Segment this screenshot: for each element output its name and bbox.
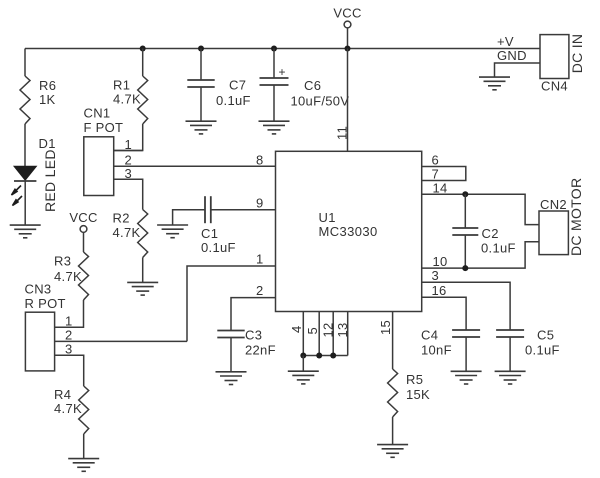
svg-text:R5: R5 — [406, 372, 423, 387]
wire C2 to pin10 net — [464, 235, 466, 268]
wire CN4 GND — [495, 63, 541, 77]
resistor R6 — [20, 76, 30, 124]
svg-text:6: 6 — [432, 153, 440, 168]
wire U1 pin15 to R5 — [392, 312, 394, 370]
svg-text:0.1uF: 0.1uF — [525, 343, 560, 358]
svg-text:VCC: VCC — [333, 6, 361, 21]
power VCC (top) — [333, 6, 361, 49]
svg-text:CN4: CN4 — [541, 79, 568, 94]
wire D1 to ground — [24, 181, 26, 225]
ground (CN4) — [479, 77, 510, 90]
svg-text:CN3: CN3 — [25, 282, 52, 297]
connector CN4 — [540, 35, 569, 79]
wire U1 pin10 to CN2 — [422, 242, 539, 268]
svg-text:5: 5 — [305, 327, 320, 335]
svg-text:16: 16 — [432, 283, 447, 298]
wire C6 to ground — [273, 85, 275, 121]
wire CN3 pin2 run — [55, 340, 187, 342]
wire C5 to ground — [509, 337, 511, 371]
svg-text:4.7K: 4.7K — [113, 92, 141, 107]
connector CN2 — [539, 211, 568, 255]
wire U1 pin3 to C5 — [422, 282, 510, 330]
capacitor C7 — [187, 80, 214, 87]
op-amp U1 MC33030 — [276, 151, 422, 311]
wire CN1 pin1 stub — [114, 150, 143, 152]
svg-text:2: 2 — [65, 328, 73, 343]
svg-text:R POT: R POT — [25, 296, 66, 311]
svg-text:MC33030: MC33030 — [319, 224, 378, 239]
wire rail to R1 — [142, 49, 144, 77]
junction pin5/bus — [316, 353, 322, 359]
ground (C7) — [186, 121, 217, 134]
svg-text:D1: D1 — [39, 136, 56, 151]
svg-text:4.7K: 4.7K — [54, 401, 82, 416]
ground (C6) — [259, 121, 290, 134]
svg-text:VCC: VCC — [69, 210, 97, 225]
ground (C4) — [451, 371, 482, 384]
svg-text:10: 10 — [433, 254, 448, 269]
svg-text:11: 11 — [335, 126, 350, 140]
resistor R5 — [388, 369, 398, 417]
wire U1 pin13 down — [347, 312, 349, 356]
resistor R4 — [79, 386, 89, 434]
wire R3 to CN3 pin1 — [55, 300, 84, 327]
svg-text:4.7K: 4.7K — [54, 269, 82, 284]
capacitor C1 — [205, 196, 211, 223]
wire rail to C6 — [273, 49, 275, 79]
ground (C3) — [216, 372, 247, 385]
junction pin4/bus — [300, 353, 306, 359]
wire R6 to D1 — [24, 124, 26, 166]
svg-text:U1: U1 — [319, 210, 336, 225]
svg-text:1K: 1K — [39, 92, 56, 107]
junction C7/rail — [198, 46, 204, 52]
svg-text:0.1uF: 0.1uF — [216, 93, 251, 108]
svg-text:C4: C4 — [421, 328, 438, 343]
svg-text:DC MOTOR: DC MOTOR — [568, 178, 584, 256]
connector CN3 — [25, 312, 54, 371]
wire U1 pin16 to C4 — [422, 297, 466, 330]
wire U1 pin6-pin7 tie — [422, 167, 466, 181]
junction pin12/bus — [330, 353, 336, 359]
capacitor C3 — [217, 331, 244, 338]
wire C4 to ground — [465, 337, 467, 371]
svg-text:9: 9 — [256, 196, 264, 211]
svg-text:C1: C1 — [201, 226, 218, 241]
svg-text:14: 14 — [433, 180, 448, 195]
wire U1 pin2 to C3 — [231, 298, 276, 331]
svg-text:R6: R6 — [39, 78, 56, 93]
ground (D1) — [10, 225, 41, 238]
capacitor C5 — [496, 330, 524, 337]
svg-text:1: 1 — [125, 137, 133, 152]
svg-text:8: 8 — [256, 153, 264, 168]
svg-text:RED LED: RED LED — [42, 149, 58, 212]
junction C6/rail — [271, 46, 277, 52]
power VCC (left) — [69, 210, 97, 252]
wire R1 to CN1 pin1 — [114, 124, 143, 151]
wire R5 to ground — [392, 417, 394, 445]
wire C3 to ground — [230, 338, 232, 372]
svg-text:3: 3 — [65, 342, 73, 357]
wire pin14 net to C2 — [464, 194, 466, 228]
wire rail to C7 — [200, 49, 202, 81]
svg-text:10nF: 10nF — [421, 343, 452, 358]
wire R4 to ground — [83, 434, 85, 459]
wire bus to ground — [302, 356, 304, 372]
wire VCC top rail — [25, 48, 540, 50]
wire U1 pin9 to C1 — [211, 209, 276, 211]
svg-text:15K: 15K — [406, 387, 430, 402]
wire U1 pin4 down — [302, 312, 304, 356]
svg-text:2: 2 — [256, 283, 264, 298]
svg-text:C3: C3 — [245, 328, 262, 343]
svg-text:4: 4 — [289, 325, 304, 333]
svg-text:3: 3 — [432, 268, 440, 283]
svg-text:0.1uF: 0.1uF — [201, 240, 236, 255]
svg-text:CN2: CN2 — [540, 197, 567, 212]
svg-text:0.1uF: 0.1uF — [481, 241, 516, 256]
wire CN1 pin3 to R2 — [114, 179, 143, 209]
svg-text:13: 13 — [335, 322, 350, 337]
svg-text:R2: R2 — [113, 211, 130, 226]
junction VCC/rail — [345, 46, 351, 52]
svg-text:3: 3 — [125, 166, 133, 181]
wire U1 pin5 down — [318, 312, 320, 356]
svg-text:C5: C5 — [537, 328, 554, 343]
wire C1 to ground — [173, 210, 205, 225]
capacitor C2 — [452, 228, 478, 235]
ground (R5) — [377, 445, 408, 458]
svg-text:R4: R4 — [54, 387, 71, 402]
ground (C1) — [157, 225, 188, 238]
svg-text:C6: C6 — [304, 78, 321, 93]
svg-text:12: 12 — [321, 322, 336, 337]
resistor R2 — [138, 210, 148, 258]
svg-text:4.7K: 4.7K — [113, 225, 141, 240]
wire to U1 pin1 — [187, 266, 276, 341]
svg-text:F POT: F POT — [84, 120, 124, 135]
svg-text:C2: C2 — [482, 226, 499, 241]
junction C2/pin14 — [462, 191, 468, 197]
wire VCC to U1 pin11 — [347, 49, 349, 152]
wire U1 pin14 to CN2 — [422, 194, 539, 224]
svg-text:GND: GND — [497, 48, 527, 63]
LED D1 emission arrows — [12, 186, 23, 206]
junction R1/rail — [140, 46, 146, 52]
ground (R4) — [68, 459, 99, 472]
svg-text:+V: +V — [497, 34, 514, 49]
connector CN1 — [84, 137, 114, 196]
svg-text:22nF: 22nF — [245, 343, 276, 358]
junction C2/pin10 — [462, 265, 468, 271]
svg-text:1: 1 — [256, 252, 264, 267]
svg-text:DC IN: DC IN — [569, 34, 585, 74]
LED D1 — [14, 166, 36, 181]
svg-text:CN1: CN1 — [84, 106, 111, 121]
ground (R2) — [127, 282, 158, 295]
svg-text:10uF/50V: 10uF/50V — [291, 94, 350, 109]
svg-text:+: + — [279, 65, 286, 79]
resistor R1 — [138, 76, 148, 124]
svg-text:R3: R3 — [54, 254, 71, 269]
wire R2 to ground — [142, 258, 144, 283]
wire CN1 pin2 to U1 pin8 — [114, 165, 276, 167]
svg-text:7: 7 — [432, 166, 440, 181]
wire U1 pin12 down — [332, 312, 334, 356]
svg-text:R1: R1 — [113, 78, 130, 93]
wire rail to R6 — [24, 49, 26, 77]
wire ground bus — [303, 355, 347, 357]
capacitor C4 — [452, 330, 480, 337]
svg-text:C7: C7 — [229, 78, 246, 93]
wire CN3 pin3 to R4 — [55, 355, 84, 386]
capacitor C6 (electrolytic) — [260, 78, 289, 85]
resistor R3 — [79, 252, 89, 300]
ground (C5) — [495, 371, 526, 384]
svg-text:15: 15 — [378, 320, 393, 335]
wire C7 to ground — [200, 87, 202, 121]
ground (pins 4/5/12/13) — [288, 371, 319, 384]
svg-text:1: 1 — [65, 314, 73, 329]
